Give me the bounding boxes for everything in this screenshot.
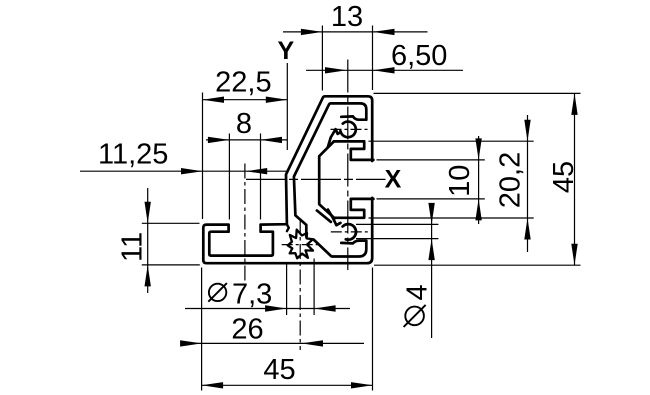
lower screw boss arc (tapping hole Ø4), open toward lower-left <box>343 224 356 240</box>
svg-text:8: 8 <box>236 108 252 140</box>
svg-text:20,2: 20,2 <box>495 152 527 208</box>
svg-text:6,50: 6,50 <box>391 40 447 72</box>
dim 13 extension lines <box>321 26 323 91</box>
dim 13: dimension line <box>283 31 428 33</box>
svg-text:11: 11 <box>117 232 149 262</box>
upper right-face T-slot: shelf, nut groove notch, lip block, lip top line <box>334 141 374 160</box>
dim Ø7,3 extension lines <box>286 263 288 316</box>
channel wall B from screw channel mouth down to inner cavity bottom <box>314 240 332 257</box>
dim 45 bottom: dimension line <box>202 384 373 386</box>
dim Ø4 extension lines <box>356 223 438 225</box>
svg-text:Y: Y <box>277 37 294 65</box>
dim 22,5: dimension line <box>203 99 288 101</box>
svg-text:11,25: 11,25 <box>98 139 168 171</box>
dim 45 right extension lines <box>374 92 581 94</box>
dim Ø4 arrows <box>428 203 434 225</box>
dim 45 right: dimension line vertical <box>574 93 576 265</box>
dim 22,5 extension line left <box>202 93 204 220</box>
horizontal centerline upper screw hole <box>331 128 370 130</box>
dim Ø7,3 arrows <box>265 305 287 311</box>
dim 45 bottom extension lines <box>201 268 203 391</box>
dim 45 right arrows <box>571 93 577 115</box>
svg-text:7,3: 7,3 <box>232 279 272 311</box>
dim 11 arrows <box>145 202 151 224</box>
upper screw boss arc (tapping hole Ø4), open toward upper-left <box>340 122 355 138</box>
lower right-face T-slot: lip bottom line, lip block, nut groove notch, shelf <box>334 199 374 218</box>
vertical centerline screw channel / extension for 26 dim <box>299 219 301 351</box>
svg-text:13: 13 <box>331 1 363 33</box>
dim 11 extension lines <box>142 222 200 224</box>
dim 11,25: dimension line <box>80 170 287 172</box>
dim 11: dimension line vertical <box>147 188 149 293</box>
svg-text:X: X <box>385 166 402 194</box>
channel upper wall from neck jog toward lower screw boss <box>317 211 331 222</box>
svg-text:10: 10 <box>444 165 476 197</box>
inner cavity bottom wall, inner right wall lower part, ledge and tab lip under lower screw hole <box>333 241 367 257</box>
svg-text:26: 26 <box>231 314 263 346</box>
dim 26: dimension line <box>184 342 364 344</box>
dim 20,2 arrows <box>524 120 530 142</box>
horizontal centerline screw channel <box>282 244 319 246</box>
dim 10 arrows <box>475 138 481 160</box>
dim 13 arrows <box>301 29 323 35</box>
svg-text:22,5: 22,5 <box>215 67 271 99</box>
svg-text:45: 45 <box>263 354 295 386</box>
dim Ø7,3 text with diameter symbol <box>209 284 226 301</box>
dim 8 extension lines <box>228 134 230 220</box>
internal separating wall, cavity side: chamfer, vertical, chamfer (between void pocket and main cavity) <box>319 142 334 219</box>
dim 11,25 arrows <box>181 168 203 174</box>
dim 10 extension lines <box>377 159 485 161</box>
dim Ø7,3: dimension line <box>185 308 350 310</box>
dim 6,50: dimension line <box>306 69 463 71</box>
vertical centerline bottom T-slot <box>244 164 246 286</box>
Y axis line / extension of 22,5 dim <box>286 63 288 150</box>
dim Ø4: dimension line vertical <box>431 214 433 339</box>
dim 8 arrows <box>208 137 230 143</box>
internal separating wall lower end with thread tooth joining lower screw boss <box>328 210 341 226</box>
svg-text:4: 4 <box>402 284 434 300</box>
dim 45 bottom arrows <box>202 382 224 388</box>
dim 26 arrows <box>180 340 202 346</box>
dim 20,2: dimension line vertical <box>527 115 529 252</box>
internal separating wall upper end with thread tooth joining upper screw boss <box>328 129 341 147</box>
vertical centerline of 13-wide top flange and screw holes <box>347 60 349 271</box>
svg-text:45: 45 <box>548 161 580 193</box>
dim 6,50 arrows <box>325 67 347 73</box>
serrated thread-forming screw channel Ø7,3 <box>288 230 313 259</box>
dim Ø4 text rotated with diameter symbol <box>405 307 424 326</box>
X axis line <box>246 178 386 180</box>
dim 20,2 extension lines <box>369 140 534 142</box>
serrated channel join to neck wall <box>286 224 288 231</box>
dim 22,5 arrows <box>203 97 225 103</box>
horizontal centerline lower screw hole <box>331 231 370 233</box>
profile outer contour: right face lower segment, bottom face, left face, bottom T-slot, neck wall, 60-deg diagonal face, top face, right face upper segment <box>203 96 372 263</box>
dim 10: dimension line vertical <box>478 136 480 224</box>
inner cavity top wall, inner right wall upper part, ledge and spring tab over screw hole, inner 60-deg wall, right neck wall <box>294 103 366 236</box>
dim 8: dimension line <box>206 139 287 141</box>
